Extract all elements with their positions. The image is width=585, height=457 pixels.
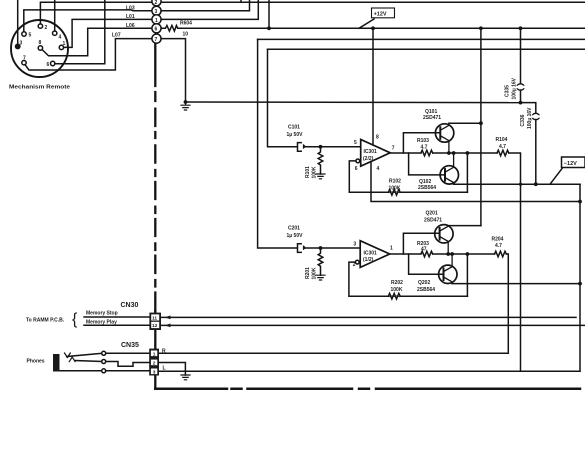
wire -12V label leader diagonal [550,169,562,185]
svg-text:100K: 100K [391,287,403,293]
svg-text:6: 6 [47,62,50,68]
board edge bottom: corner and dashed horizontal [155,388,580,391]
J1 pin 4 [53,31,57,35]
wire Q201 collector to +12V vertical [448,225,481,227]
junction dot output node ch2 [466,252,470,256]
svg-text:To RAMM P.C.B.: To RAMM P.C.B. [26,318,65,324]
wire strip pin7 right to ground node [161,39,185,102]
J1 pin 8 [38,46,42,50]
wire L03 row from pin5 to strip pin3 [24,10,153,32]
svg-text:C101: C101 [288,125,300,131]
wire L06 row from pin8 to strip pin6 [42,28,152,56]
svg-text:2SB564: 2SB564 [418,185,436,191]
resistor R604 on +12V rail [161,26,585,32]
svg-text:5: 5 [29,33,32,39]
terminal circle mid [102,360,106,364]
svg-text:2SD471: 2SD471 [424,218,442,224]
svg-text:L03: L03 [126,5,135,11]
phone jack sleeve bar [53,354,60,372]
svg-text:47: 47 [421,247,427,253]
wire U1 output line [390,152,421,154]
wire feedback vertical to output node ch2 [466,254,468,296]
wire vertical x=257.6 down to C201 feed [258,39,297,248]
capacitor C101 1u 50V [298,143,302,152]
svg-text:12: 12 [152,323,158,329]
wire vertical x=267.5 down to C101 feed [268,49,298,147]
junction dot collector bus [479,121,483,125]
svg-text:4: 4 [59,35,62,41]
svg-text:6: 6 [355,166,358,172]
svg-text:Q202: Q202 [418,280,430,286]
junction dot Q101 emitter [447,151,451,155]
junction blob at rail crossing x=520.5 [519,183,522,186]
junction dot R201 tap [319,246,323,250]
svg-text:2SB564: 2SB564 [417,287,435,293]
svg-text:4.7: 4.7 [421,145,428,151]
resistor R101 100K (vertical) [318,147,323,174]
op-amp U2 IC301 (1/2) [360,241,390,268]
bus wire y=49.3 [268,48,585,50]
svg-text:5: 5 [354,140,357,146]
svg-text:7: 7 [23,56,26,62]
svg-text:4.7: 4.7 [499,144,506,150]
svg-text:3: 3 [20,41,23,47]
svg-text:IC301: IC301 [364,149,378,155]
svg-text:{: { [72,311,78,328]
wire L01 row from pin1 to strip pin1 [64,19,153,47]
ground GND4 (CN35 pin2) [181,375,190,380]
connector strip pin 3 [152,6,161,15]
svg-text:1: 1 [153,351,156,357]
junction dot Q202 emitter [450,252,454,256]
J1 pin 1 [59,45,63,49]
bus wire y=39.4 [258,38,585,40]
svg-text:1: 1 [390,246,393,252]
wire +12V label leader diagonal [359,19,374,28]
junction dot collector at -12V vertical [578,282,582,286]
svg-text:100K: 100K [312,166,318,178]
wire jack ring to circle [75,361,102,362]
wire U1 pin6 to feedback line [349,161,467,192]
+12V supply label box [372,8,395,18]
junction dot ground bus [184,100,188,104]
svg-text:Memory Stop: Memory Stop [86,311,118,317]
svg-text:2: 2 [155,0,158,6]
svg-text:Phones: Phones [27,359,45,365]
wire jog to C336 [521,103,536,114]
wire pin6 to top edge [55,0,105,64]
junction dot rail x=480.9 [479,26,483,30]
wire ground bus y=102 to C335 node [186,101,521,104]
svg-text:100µ 16V: 100µ 16V [527,107,533,129]
wire CN30 pin11 right with arrowhead [161,316,576,318]
junction dot Q201 emitter [446,252,450,256]
wire L07 row from pin7 to strip pin7 [25,39,153,70]
wire op-amp U1 pin8 supply vertical [372,28,374,144]
svg-text:L06: L06 [126,23,135,29]
wire Q101 collector to +12V vertical [449,122,481,124]
capacitor C201 1u 50V [298,244,302,253]
junction dot R101 tap [319,145,323,149]
svg-text:R: R [162,349,166,355]
wire C335 to ground bus [520,90,522,103]
svg-text:3: 3 [153,369,156,375]
connector CN30 body pins 11 12 [149,313,161,330]
wire circle R to CN35 pin1 [106,352,150,354]
resistor R202 100K on feedback line [388,293,400,299]
wire CN30 pin12 right with arrowhead [161,324,585,326]
wire vertical x=269 from +12V rail to top edge [268,0,270,28]
transistor Q201 2SD471 [435,225,453,243]
ground GND1 [181,102,190,110]
wire R204 to phones R vertical [159,254,508,353]
wire base branch down Q202 [409,254,443,274]
ground GND2 (R101) [316,174,325,179]
wire Q202 collector to -12V vertical [452,283,580,285]
-12V vertical [579,184,581,371]
junction dot Q102 emitter [452,151,456,155]
wire CN35 pin3 to phones L line [159,370,580,372]
resistor R103 47 [421,150,433,156]
svg-text:10: 10 [183,32,189,38]
resistor R102 100K on feedback line [388,190,400,196]
svg-text:11: 11 [152,316,157,322]
connector strip pin 1 [152,15,161,24]
connector CN35 body pins 1 2 3 [149,349,159,376]
connector strip pin 6 [152,24,161,33]
svg-text:L07: L07 [112,33,121,39]
svg-text:6: 6 [155,27,158,33]
wire collector supply vertical x=480.9 [480,28,482,225]
svg-text:R102: R102 [389,179,401,185]
svg-text:7: 7 [392,145,395,151]
junction dot rail x=269 [267,26,271,30]
junction dot C336 bottom on -12V rail [534,182,538,186]
svg-text:1: 1 [63,41,66,47]
terminal circle L [102,369,106,373]
J1 pin 3 [16,44,20,48]
wire jack tip to circle [67,353,102,356]
resistor R203 47 [421,251,433,257]
svg-text:8: 8 [376,135,379,141]
transistor Q101 2SD471 [435,124,453,142]
J1 pin 2 [38,24,42,28]
svg-text:Mechanism Remote: Mechanism Remote [9,85,70,91]
wire U1 pin4 down and right to -12V area [371,162,580,202]
wire output line ch2 to R204 [433,253,495,255]
resistor R201 100K (vertical) [318,248,323,275]
svg-text:(2/2): (2/2) [363,156,374,162]
svg-text:+12V: +12V [374,12,387,18]
wire Memory Stop to CN30 pin 11 [84,316,150,318]
svg-text:R604: R604 [180,21,192,27]
junction dot rail x=520.5 [519,26,523,30]
J1 pin 6 [51,61,55,65]
transistor Q202 2SB564 [439,265,457,283]
wire U2 output line [390,253,421,255]
svg-text:(1/2): (1/2) [363,257,374,263]
svg-text:C201: C201 [288,226,300,232]
-12V rail horizontal [454,183,580,185]
svg-text:CN30: CN30 [121,302,139,309]
capacitor C336 100u 16V [532,113,540,119]
wire base branch up Q201 [403,233,438,254]
wire C101 to op-amp U1 +in [305,146,361,148]
svg-text:C335: C335 [505,85,511,97]
svg-text:R204: R204 [492,237,504,243]
wire C336 to -12V rail [535,120,537,185]
wire circle mid to CN35 pin2 (jog) [106,362,150,367]
svg-text:L01: L01 [126,14,135,20]
svg-text:2: 2 [153,361,156,367]
wire pin3 up to top edge [17,0,19,44]
junction dot C335 bottom [519,101,523,105]
wire +12V rail to C335 [520,28,522,84]
wire circle L to CN35 pin3 [106,370,150,372]
board edge solid through CN30/CN35 [154,311,156,389]
svg-text:C336: C336 [520,114,526,126]
wire jack sleeve to circle [60,370,102,372]
wire feedback vertical to output node [466,153,468,192]
svg-text:R201: R201 [305,267,311,279]
svg-text:4: 4 [377,166,380,172]
wire base branch up Q101 [403,133,439,153]
wire L02 row from pin2 to strip pin2 and onward [40,2,585,24]
svg-text:CN35: CN35 [121,342,139,349]
wire strip pin1 right, bends up at x=258.3 [161,0,258,19]
svg-text:100µ 16V: 100µ 16V [512,77,518,99]
svg-text:4.7: 4.7 [495,243,502,249]
connector J1 Mechanism Remote (circle body) [11,20,68,77]
svg-text:IC301: IC301 [364,250,378,256]
svg-text:1µ 50V: 1µ 50V [287,132,304,138]
capacitor C335 100u 16V [517,84,525,90]
wire pin4 up to top edge [54,0,56,31]
op-amp U2 inverting input circle pin2 [355,260,359,264]
svg-text:3: 3 [353,241,356,247]
J1 pin 7 [22,61,26,65]
wire Memory Play to CN30 pin 12 [84,324,150,326]
svg-text:1: 1 [155,18,158,24]
terminal circle R [102,351,106,355]
op-amp U1 IC301 (2/2) [361,140,391,167]
junction dot output node [466,151,470,155]
wire stub up at x=241 [240,0,242,2]
svg-text:8: 8 [39,40,42,46]
wire C201 to op-amp U2 +in [305,247,360,249]
connector strip pin 2 [152,0,161,6]
svg-text:R101: R101 [305,166,311,178]
svg-text:7: 7 [155,37,158,43]
resistor R104 4.7 [497,150,509,156]
svg-text:R202: R202 [391,280,403,286]
connector strip pin 7 [152,34,161,43]
-12V supply label box [562,157,585,168]
board edge dash-dot vertical [154,44,156,312]
svg-text:100K: 100K [312,267,318,279]
svg-text:R103: R103 [417,138,429,144]
phone jack tip contact V [65,353,71,358]
J1 pin 5 [22,32,26,36]
ground GND3 (R201) [316,275,325,280]
wire base branch down Q102 [409,153,444,175]
wire R104 to phones L vertical [509,153,521,371]
svg-text:1µ 50V: 1µ 50V [287,233,304,239]
resistor R204 4.7 [495,251,507,257]
junction dot rail x=374 [371,26,375,30]
svg-text:R104: R104 [496,137,508,143]
phone jack ring contact A [69,357,75,362]
wire CN35 pin2 to ground [159,363,185,376]
wire strip pin3 right, bends up at x=249.5 [161,0,249,11]
svg-text:100K: 100K [389,186,401,192]
wire U2 pin2 to feedback line [349,262,468,296]
op-amp U1 inverting input circle pin6 [356,159,360,163]
svg-text:2: 2 [45,25,48,31]
wire output line to R104 [433,152,497,154]
transistor Q102 2SB564 [440,166,458,184]
svg-text:−12V: −12V [564,161,577,167]
svg-text:Q201: Q201 [426,211,438,217]
svg-text:2SD471: 2SD471 [423,115,441,121]
